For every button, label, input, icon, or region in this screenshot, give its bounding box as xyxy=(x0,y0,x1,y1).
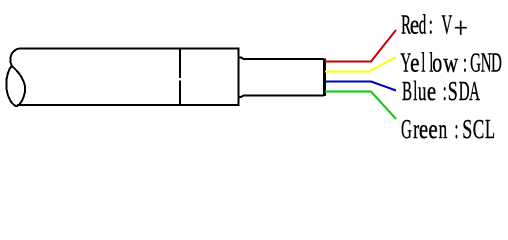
svg-text::: : xyxy=(463,48,467,78)
svg-text:S: S xyxy=(448,77,458,106)
svg-text:V: V xyxy=(441,10,452,40)
svg-text:l: l xyxy=(413,77,417,107)
svg-text:G: G xyxy=(470,48,481,78)
svg-text:D: D xyxy=(459,77,470,107)
svg-text:n: n xyxy=(439,114,448,144)
svg-text:L: L xyxy=(485,114,495,144)
svg-text:D: D xyxy=(491,48,502,78)
svg-text::: : xyxy=(443,77,447,107)
svg-text:w: w xyxy=(443,49,458,78)
svg-text:l: l xyxy=(421,48,425,78)
svg-text:G: G xyxy=(401,115,412,145)
svg-text::: : xyxy=(454,115,458,145)
svg-text:e: e xyxy=(427,77,436,107)
svg-text::: : xyxy=(429,10,433,40)
svg-text:o: o xyxy=(432,49,442,79)
svg-text:S: S xyxy=(462,114,472,143)
svg-text:d: d xyxy=(419,10,427,40)
svg-text:A: A xyxy=(469,77,480,107)
svg-text:e: e xyxy=(410,48,419,78)
svg-text:u: u xyxy=(418,76,427,106)
svg-text:B: B xyxy=(402,77,412,107)
svg-text:e: e xyxy=(419,115,428,145)
svg-text:C: C xyxy=(473,114,485,144)
svg-text:e: e xyxy=(428,115,437,145)
